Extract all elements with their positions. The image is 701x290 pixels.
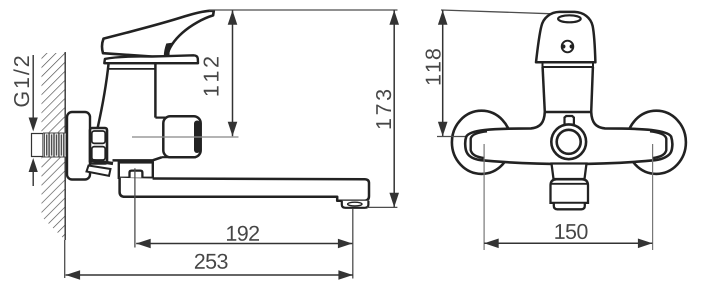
label G1/2 [13,56,29,106]
dimension 118 [426,10,448,136]
dimension 253 [66,254,353,280]
shower outlet ring outer [551,124,586,159]
wall bell right [627,111,686,174]
body bottom edge [113,157,163,160]
lever pivot dark detail [164,43,172,57]
wall bell left [452,111,511,174]
centre line through cap [132,136,239,138]
right extension line (192/253) [352,209,354,279]
aerator ellipse [348,202,362,206]
bell centre/extension lines [483,144,485,250]
valve body column [98,63,162,160]
pipe threads [44,133,66,157]
pipe bottom line [43,156,69,158]
body ring line [108,68,156,70]
spout [120,178,369,201]
pipe thread hatch background [43,133,69,158]
dome rim band [543,66,594,68]
G1/2 leader arrow up [29,158,38,186]
lever end cap ellipse [558,15,581,22]
cap dark end band [194,121,200,154]
top extension line to handle cap [441,10,553,14]
bar end inner line left [471,131,487,158]
neck front [543,67,545,112]
dimension 150 [484,224,652,248]
G1/2 leader arrow down [29,55,38,132]
body right edge [154,63,157,117]
diverter bottom cap [554,203,585,209]
shower outlet ring inner [557,130,581,154]
faucet bar body [465,112,672,164]
nut bottom thick edge [89,160,113,164]
wall hatch [42,53,66,240]
top tab on ring [565,116,574,126]
spout mount square detail [130,171,143,178]
173 bottom extension line [367,206,397,208]
top extension line [209,9,398,11]
118 bottom extension line [437,136,475,138]
cartridge side cap [155,116,166,118]
bar end inner line right [650,131,666,158]
escutcheon foot bracket [87,166,111,176]
supply pipe stub [32,134,44,157]
wall escutcheon [67,112,90,180]
aerator [342,201,369,208]
lever handle [102,11,214,57]
dimension 112 [204,10,238,136]
handle dome front [536,12,595,62]
locknut [90,128,107,164]
pipe top line [43,132,69,134]
dimension 173 [376,10,399,207]
handle dome [104,55,198,63]
diverter trapezoid [552,164,587,180]
wall face line [64,52,66,240]
192 left extension line [134,168,136,247]
indicator cap [562,41,574,53]
body left edge [98,63,109,127]
diverter collar [551,179,589,203]
dome bottom line [104,62,198,64]
spout mount block [119,162,153,177]
dimension 192 [136,226,352,249]
253 left extension line [64,240,66,278]
